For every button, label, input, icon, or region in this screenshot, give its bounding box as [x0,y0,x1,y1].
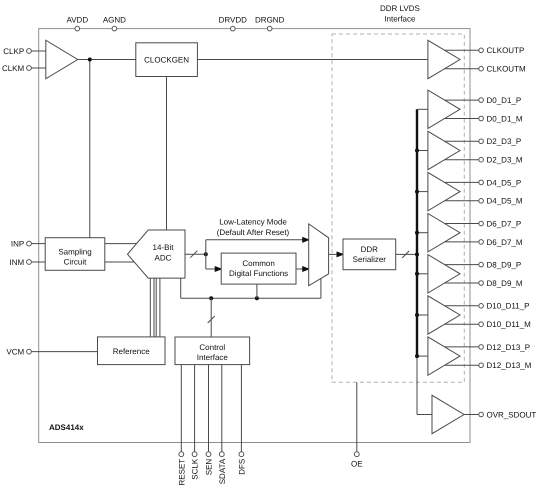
svg-text:D12_D13_P: D12_D13_P [487,343,531,352]
svg-text:D8_D9_P: D8_D9_P [487,261,522,270]
svg-text:Common: Common [242,259,274,268]
svg-text:SEN: SEN [205,459,214,476]
svg-text:CLKM: CLKM [2,64,25,73]
svg-text:D2_D3_M: D2_D3_M [487,156,523,165]
svg-text:AGND: AGND [103,15,126,24]
svg-text:DDR LVDS: DDR LVDS [380,4,420,13]
svg-text:CLKP: CLKP [3,47,24,56]
svg-text:RESET: RESET [177,459,186,486]
svg-text:Interface: Interface [197,353,229,362]
svg-text:SDATA: SDATA [218,458,227,484]
svg-text:D4_D5_P: D4_D5_P [487,178,522,187]
svg-text:INM: INM [10,258,25,267]
svg-text:D10_D11_P: D10_D11_P [487,302,530,311]
svg-text:DRVDD: DRVDD [219,15,248,24]
svg-text:Low-Latency Mode: Low-Latency Mode [219,218,287,227]
svg-text:D0_D1_P: D0_D1_P [487,96,522,105]
svg-text:D12_D13_M: D12_D13_M [487,361,532,370]
svg-text:D8_D9_M: D8_D9_M [487,279,523,288]
svg-text:D4_D5_M: D4_D5_M [487,197,523,206]
svg-text:INP: INP [11,240,24,249]
svg-text:OVR_SDOUT: OVR_SDOUT [487,410,537,419]
svg-text:OE: OE [351,459,363,468]
svg-text:Reference: Reference [113,347,150,356]
svg-text:VCM: VCM [6,348,24,357]
svg-text:(Default After Reset): (Default After Reset) [217,228,290,237]
svg-text:CLKOUTM: CLKOUTM [487,65,526,74]
svg-text:14-Bit: 14-Bit [153,243,175,252]
svg-text:DDR: DDR [361,245,379,254]
svg-text:D2_D3_P: D2_D3_P [487,137,522,146]
svg-text:Serializer: Serializer [353,255,387,264]
svg-text:ADC: ADC [155,254,172,263]
svg-text:D6_D7_M: D6_D7_M [487,238,523,247]
svg-text:SCLK: SCLK [191,458,200,480]
svg-text:CLKOUTP: CLKOUTP [487,46,525,55]
svg-text:DRGND: DRGND [255,15,285,24]
svg-text:Digital Functions: Digital Functions [229,269,288,278]
svg-text:Sampling: Sampling [58,247,91,256]
svg-text:ADS414x: ADS414x [49,423,84,432]
svg-text:CLOCKGEN: CLOCKGEN [144,56,189,65]
svg-text:DFS: DFS [237,459,246,475]
svg-text:Circuit: Circuit [64,257,87,266]
svg-text:Interface: Interface [384,15,416,24]
svg-text:D10_D11_M: D10_D11_M [487,320,532,329]
svg-text:D0_D1_M: D0_D1_M [487,114,523,123]
svg-text:AVDD: AVDD [66,15,88,24]
svg-text:D6_D7_P: D6_D7_P [487,219,522,228]
svg-text:Control: Control [199,343,225,352]
